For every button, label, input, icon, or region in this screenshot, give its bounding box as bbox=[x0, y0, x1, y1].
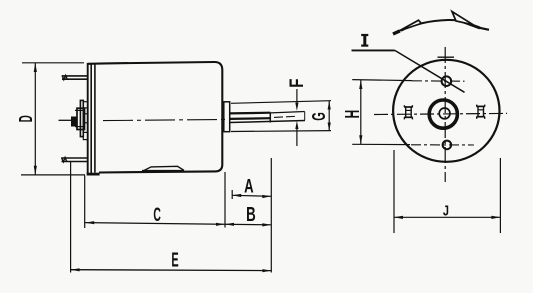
svg-text:J: J bbox=[443, 204, 449, 220]
svg-text:D: D bbox=[15, 115, 36, 122]
svg-text:B: B bbox=[246, 204, 256, 226]
svg-text:A: A bbox=[244, 176, 254, 197]
svg-text:F: F bbox=[287, 78, 308, 87]
svg-text:C: C bbox=[153, 204, 161, 226]
svg-text:G: G bbox=[308, 112, 329, 121]
svg-text:H: H bbox=[342, 110, 364, 119]
svg-text:E: E bbox=[171, 250, 178, 272]
